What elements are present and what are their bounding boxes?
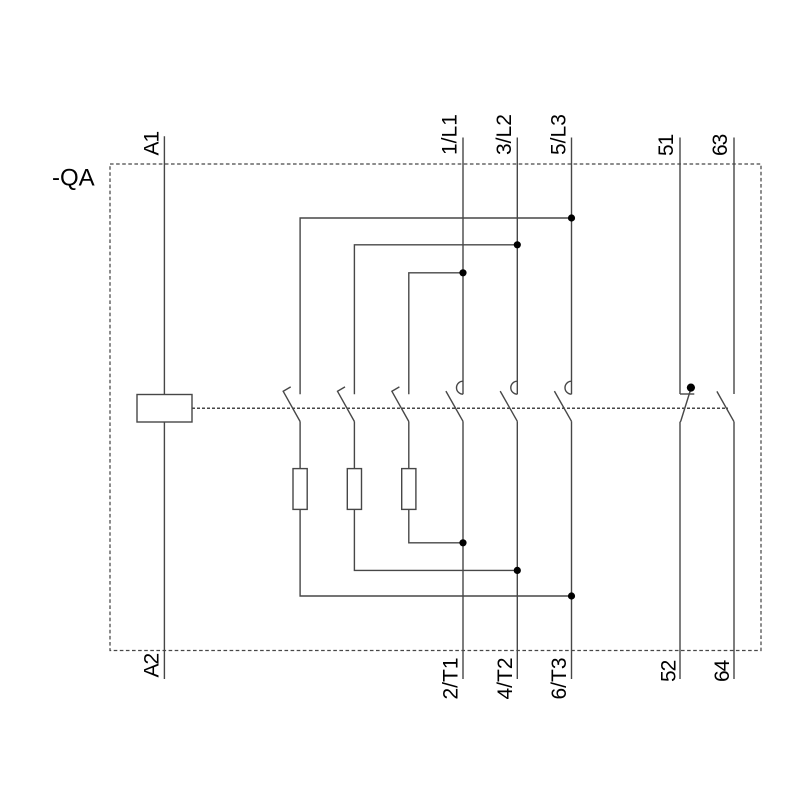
mechanical actuator dashed link	[192, 407, 728, 409]
main contact pole 1 arc	[457, 381, 463, 394]
main contact pole 2 blade	[500, 391, 517, 421]
NO aux contact 63-64 blade	[717, 391, 734, 421]
wire resistor pole 1 top link to 5/L3	[300, 218, 571, 394]
wire 5/L3 terminal	[571, 138, 573, 395]
wire A1 terminal	[163, 136, 165, 394]
junction dot 3/L2 top	[514, 241, 521, 248]
svg-text:51: 51	[655, 134, 678, 156]
resistor contact 1 blade	[283, 387, 300, 422]
resistor R3	[402, 469, 416, 510]
svg-text:3/L2: 3/L2	[493, 114, 516, 155]
wire resistor 1 lower lead to 6/T3	[300, 509, 571, 596]
wire A2 terminal	[163, 422, 165, 679]
junction dot 6/T3 bottom	[568, 592, 575, 599]
svg-text:4/T2: 4/T2	[494, 657, 517, 699]
svg-text:1/L1: 1/L1	[439, 114, 462, 155]
svg-text:2/T1: 2/T1	[440, 657, 463, 699]
wire resistor pole 2 top link to 3/L2	[354, 245, 517, 394]
wire 2/T1 terminal	[462, 421, 464, 679]
svg-text:-QA: -QA	[52, 165, 95, 192]
wire resistor 1 upper lead	[299, 422, 301, 469]
svg-text:A2: A2	[141, 653, 164, 677]
main contact pole 3 blade	[554, 391, 571, 421]
svg-text:52: 52	[658, 660, 681, 682]
junction dot 5/L3 top	[568, 214, 575, 221]
junction dot 4/T2 bottom	[514, 567, 521, 574]
wire 51 terminal	[679, 138, 681, 395]
wire 6/T3 terminal	[571, 421, 573, 679]
wire 52 terminal	[679, 422, 681, 679]
wire resistor 2 lower lead to 4/T2	[354, 509, 517, 570]
wire resistor 3 lower lead to 2/T1	[409, 509, 463, 542]
wire 63 terminal	[733, 138, 735, 395]
NC aux contact 51-52 blade	[680, 389, 691, 422]
wire 4/T2 terminal	[516, 421, 518, 679]
svg-text:64: 64	[711, 659, 734, 682]
enclosure dashed outline	[110, 164, 761, 651]
wire resistor pole 3 top link to 1/L1	[409, 273, 463, 395]
main contact pole 1 blade	[446, 391, 463, 421]
wire resistor 2 upper lead	[353, 422, 355, 469]
svg-text:5/L3: 5/L3	[548, 114, 571, 155]
main contact pole 2 arc	[511, 381, 517, 394]
wire 1/L1 terminal	[462, 138, 464, 395]
resistor contact 2 blade	[338, 387, 355, 422]
resistor R2	[347, 469, 361, 510]
wire resistor 3 upper lead	[408, 422, 410, 469]
wire 3/L2 terminal	[516, 138, 518, 395]
wire 64 terminal	[733, 422, 735, 679]
junction dot 2/T1 bottom	[459, 539, 466, 546]
svg-text:6/T3: 6/T3	[548, 657, 571, 699]
junction dot 1/L1 top	[459, 269, 466, 276]
coil K (-QA)	[137, 395, 192, 423]
resistor R1	[293, 469, 307, 510]
NC aux contact dot	[687, 384, 695, 392]
resistor contact 3 blade	[392, 387, 409, 422]
svg-text:63: 63	[709, 134, 732, 156]
NC aux contact 51-52 seat	[680, 393, 694, 395]
main contact pole 3 arc	[565, 381, 572, 394]
svg-text:A1: A1	[141, 131, 164, 155]
